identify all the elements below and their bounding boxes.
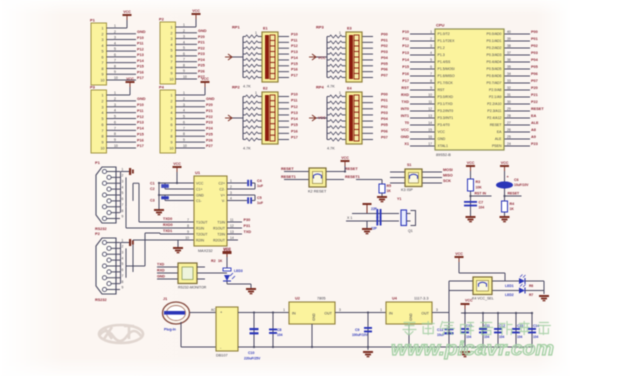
svg-text:12: 12	[230, 224, 234, 228]
svg-text:GND: GND	[157, 275, 165, 279]
svg-text:6: 6	[183, 120, 185, 124]
svg-text:2: 2	[430, 37, 432, 41]
svg-text:P02: P02	[531, 44, 538, 48]
svg-text:P0.1/AD1: P0.1/AD1	[487, 39, 502, 43]
svg-text:3: 3	[183, 35, 185, 39]
svg-text:100uF/10V: 100uF/10V	[352, 333, 369, 337]
svg-text:P2: P2	[95, 231, 101, 236]
svg-text:4: 4	[114, 41, 116, 45]
svg-text:C3: C3	[150, 199, 155, 203]
svg-text:1: 1	[183, 91, 185, 95]
svg-text:10: 10	[185, 236, 189, 240]
svg-text:3: 3	[436, 308, 438, 312]
svg-text:7: 7	[183, 58, 185, 62]
svg-text:2: 2	[102, 99, 104, 103]
svg-text:10uF/10V: 10uF/10V	[514, 183, 529, 187]
svg-text:P01: P01	[381, 38, 388, 42]
svg-text:GND: GND	[198, 29, 207, 33]
svg-text:P23: P23	[531, 142, 538, 146]
svg-text:3: 3	[114, 36, 116, 40]
svg-text:C6: C6	[514, 178, 519, 182]
svg-text:P1.6/MISO: P1.6/MISO	[438, 74, 455, 78]
svg-text:9: 9	[122, 286, 124, 290]
svg-text:GND: GND	[137, 97, 146, 101]
svg-text:12: 12	[428, 107, 432, 111]
svg-text:8: 8	[187, 224, 189, 228]
svg-text:C10: C10	[248, 351, 254, 355]
svg-text:VCC: VCC	[123, 10, 131, 14]
svg-text:P0.5/AD5: P0.5/AD5	[487, 67, 502, 71]
svg-text:P22: P22	[531, 100, 538, 104]
svg-text:P13: P13	[291, 111, 298, 115]
svg-text:4.7K: 4.7K	[243, 85, 251, 89]
svg-text:C2: C2	[150, 187, 155, 191]
svg-text:8: 8	[102, 67, 104, 71]
svg-text:P05: P05	[381, 123, 388, 127]
svg-text:RESET: RESET	[281, 167, 294, 171]
svg-text:2: 2	[230, 185, 232, 189]
svg-text:2: 2	[114, 97, 116, 101]
svg-text:P1.4/SS: P1.4/SS	[438, 60, 452, 64]
svg-text:P1: P1	[90, 18, 96, 23]
svg-text:16: 16	[428, 135, 432, 139]
svg-text:P2.2/A10: P2.2/A10	[487, 102, 501, 106]
svg-text:P24: P24	[198, 58, 206, 62]
svg-text:GND: GND	[196, 193, 204, 197]
svg-text:3: 3	[102, 105, 104, 109]
svg-text:C1: C1	[150, 182, 155, 186]
svg-text:P16: P16	[137, 70, 144, 74]
svg-text:8: 8	[122, 209, 124, 213]
svg-text:VCC: VCC	[501, 161, 509, 165]
svg-text:EA: EA	[531, 114, 537, 118]
svg-text:VCC: VCC	[126, 77, 134, 81]
svg-text:4.7K: 4.7K	[327, 85, 335, 89]
svg-text:31: 31	[507, 93, 511, 97]
svg-text:1: 1	[339, 31, 341, 35]
svg-text:RP4: RP4	[316, 85, 325, 90]
svg-text:1: 1	[102, 27, 104, 31]
svg-text:P21: P21	[198, 41, 205, 45]
svg-text:P0.2/AD2: P0.2/AD2	[487, 46, 502, 50]
svg-text:2: 2	[122, 174, 124, 178]
svg-text:34: 34	[507, 72, 511, 76]
svg-text:1: 1	[114, 91, 116, 95]
svg-text:104: 104	[479, 206, 485, 210]
svg-text:GND: GND	[137, 30, 146, 34]
svg-text:40: 40	[507, 30, 511, 34]
svg-text:P15: P15	[402, 65, 409, 69]
svg-text:8: 8	[171, 66, 173, 70]
svg-text:P15: P15	[137, 132, 144, 136]
svg-text:2: 2	[183, 29, 185, 33]
svg-text:6: 6	[102, 123, 104, 127]
svg-text:P06: P06	[381, 129, 388, 133]
svg-text:C1-: C1-	[196, 199, 202, 203]
svg-text:9: 9	[183, 69, 185, 73]
svg-text:T0: T0	[405, 121, 409, 125]
svg-text:P17: P17	[291, 74, 298, 78]
svg-text:9: 9	[430, 86, 432, 90]
svg-text:P16: P16	[291, 68, 298, 72]
svg-text:10: 10	[101, 79, 105, 83]
svg-text:P13: P13	[402, 51, 409, 55]
svg-text:14: 14	[230, 236, 234, 240]
svg-text:INT1: INT1	[401, 114, 409, 118]
svg-text:P12: P12	[402, 44, 409, 48]
svg-text:P01: P01	[381, 99, 388, 103]
svg-text:K3 ISP: K3 ISP	[401, 188, 413, 192]
svg-text:T1OUT: T1OUT	[196, 220, 208, 224]
svg-text:4: 4	[171, 43, 173, 47]
svg-text:9: 9	[102, 141, 104, 145]
svg-text:P20: P20	[206, 103, 213, 107]
svg-text:15: 15	[428, 128, 432, 132]
svg-text:10: 10	[170, 78, 174, 82]
svg-text:25: 25	[507, 135, 511, 139]
svg-text:P14: P14	[291, 117, 299, 121]
svg-text:P3: P3	[90, 85, 96, 90]
svg-text:VCC: VCC	[341, 156, 349, 160]
svg-text:P20: P20	[531, 86, 538, 90]
svg-text:VCC: VCC	[223, 247, 231, 251]
svg-text:1: 1	[183, 23, 185, 27]
svg-text:P00: P00	[531, 30, 538, 34]
svg-text:RS232: RS232	[95, 298, 107, 302]
svg-text:8: 8	[114, 64, 116, 68]
svg-text:LED1: LED1	[505, 284, 514, 288]
svg-text:10: 10	[428, 93, 432, 97]
svg-text:CPU: CPU	[436, 23, 445, 28]
svg-text:P3.4/T0: P3.4/T0	[438, 123, 450, 127]
svg-text:P0.3/AD3: P0.3/AD3	[487, 53, 502, 57]
svg-text:7: 7	[183, 126, 185, 130]
svg-text:5: 5	[122, 262, 124, 266]
svg-text:1: 1	[255, 91, 257, 95]
svg-text:P04: P04	[381, 56, 389, 60]
svg-text:P02: P02	[381, 44, 388, 48]
svg-text:36: 36	[507, 58, 511, 62]
svg-text:U2: U2	[295, 297, 300, 301]
svg-text:GND: GND	[206, 97, 215, 101]
svg-text:10: 10	[101, 147, 105, 151]
svg-text:INT0: INT0	[401, 107, 409, 111]
svg-text:1: 1	[230, 179, 232, 183]
svg-text:P04: P04	[381, 117, 389, 121]
svg-text:P00: P00	[381, 33, 388, 37]
svg-text:1K: 1K	[218, 259, 223, 263]
svg-text:35: 35	[507, 65, 511, 69]
svg-text:3: 3	[102, 38, 104, 42]
svg-text:P13: P13	[291, 50, 298, 54]
svg-text:3: 3	[171, 105, 173, 109]
svg-text:VCC: VCC	[192, 9, 200, 13]
svg-text:P2: P2	[159, 17, 165, 22]
svg-text:1: 1	[114, 24, 116, 28]
svg-text:Q1: Q1	[408, 229, 413, 233]
svg-text:3: 3	[230, 191, 232, 195]
svg-text:P14: P14	[137, 59, 145, 63]
svg-text:J1: J1	[163, 297, 167, 301]
svg-text:5: 5	[114, 115, 116, 119]
svg-text:10: 10	[183, 144, 187, 148]
svg-text:K2 RESET: K2 RESET	[308, 190, 327, 194]
svg-text:1: 1	[102, 94, 104, 98]
svg-text:3: 3	[183, 103, 185, 107]
svg-text:P2.4/A12: P2.4/A12	[487, 116, 501, 120]
svg-text:R2: R2	[211, 259, 216, 263]
svg-text:1117-3.3: 1117-3.3	[414, 297, 428, 301]
svg-text:P3.0/RXD: P3.0/RXD	[438, 95, 454, 99]
svg-text:RXD: RXD	[157, 269, 165, 273]
svg-text:P2.0/A8: P2.0/A8	[489, 88, 502, 92]
svg-text:39: 39	[507, 37, 511, 41]
svg-text:6: 6	[122, 268, 124, 272]
svg-text:9: 9	[114, 70, 116, 74]
svg-text:7: 7	[430, 72, 432, 76]
svg-text:RST: RST	[438, 88, 446, 92]
svg-text:SCK: SCK	[443, 179, 451, 183]
svg-text:E1: E1	[263, 27, 268, 31]
svg-text:9: 9	[187, 230, 189, 234]
svg-text:29: 29	[507, 107, 511, 111]
svg-text:P03: P03	[381, 111, 388, 115]
svg-text:P10: P10	[291, 93, 298, 97]
svg-text:6: 6	[183, 52, 185, 56]
svg-text:22P: 22P	[371, 227, 378, 231]
svg-text:GND: GND	[312, 313, 316, 321]
svg-text:C2-: C2-	[219, 187, 225, 191]
svg-text:E2: E2	[263, 87, 268, 91]
svg-text:P16: P16	[402, 72, 409, 76]
svg-text:24: 24	[507, 142, 511, 146]
svg-text:4: 4	[230, 197, 232, 201]
svg-text:1: 1	[255, 31, 257, 35]
svg-text:MOSI: MOSI	[443, 168, 453, 172]
svg-text:VCC: VCC	[318, 56, 326, 60]
svg-text:P12: P12	[137, 47, 144, 51]
svg-text:AC: AC	[211, 308, 216, 312]
svg-text:P24: P24	[206, 127, 214, 131]
svg-text:3: 3	[171, 37, 173, 41]
svg-text:7: 7	[114, 59, 116, 63]
svg-text:4: 4	[102, 111, 104, 115]
svg-text:26: 26	[507, 128, 511, 132]
svg-text:TXD: TXD	[157, 263, 165, 267]
svg-text:A8: A8	[531, 128, 536, 132]
svg-text:6: 6	[171, 123, 173, 127]
svg-text:P3.3/INT1: P3.3/INT1	[438, 116, 454, 120]
svg-text:P1.3: P1.3	[438, 53, 445, 57]
svg-text:MAX232: MAX232	[198, 249, 213, 253]
svg-text:C8: C8	[277, 328, 282, 332]
svg-text:P1.5/MOSI: P1.5/MOSI	[438, 67, 455, 71]
svg-text:P07: P07	[381, 136, 388, 140]
svg-text:P25: P25	[198, 64, 205, 68]
svg-text:3: 3	[339, 308, 341, 312]
svg-text:TXD: TXD	[401, 100, 409, 104]
svg-text:RS232-MONITOR: RS232-MONITOR	[178, 286, 207, 290]
svg-text:3: 3	[430, 44, 432, 48]
svg-text:P0.4/AD4: P0.4/AD4	[487, 60, 502, 64]
svg-text:R2IN: R2IN	[196, 238, 204, 242]
svg-text:P10: P10	[137, 103, 144, 107]
svg-text:5: 5	[102, 50, 104, 54]
svg-text:IN: IN	[292, 312, 296, 316]
svg-text:PSEN: PSEN	[492, 144, 502, 148]
svg-text:7: 7	[102, 129, 104, 133]
svg-text:13: 13	[230, 230, 234, 234]
svg-text:RP2: RP2	[232, 85, 241, 90]
svg-text:P14: P14	[291, 56, 299, 60]
svg-text:4: 4	[183, 109, 185, 113]
svg-text:RP3: RP3	[316, 25, 325, 30]
svg-text:R1OUT: R1OUT	[213, 226, 226, 230]
svg-text:R2OUT: R2OUT	[213, 238, 226, 242]
svg-text:13: 13	[428, 114, 432, 118]
svg-text:4: 4	[114, 109, 116, 113]
svg-text:C9: C9	[355, 328, 360, 332]
svg-text:P1.2: P1.2	[438, 46, 445, 50]
svg-text:P0.0/AD0: P0.0/AD0	[487, 32, 502, 36]
svg-text:P0.6/AD6: P0.6/AD6	[487, 74, 502, 78]
svg-text:K4 VCC_SEL: K4 VCC_SEL	[472, 297, 494, 301]
svg-text:P1.0/T2: P1.0/T2	[438, 32, 450, 36]
svg-text:P12: P12	[291, 105, 298, 109]
svg-text:6: 6	[102, 55, 104, 59]
svg-text:2: 2	[171, 99, 173, 103]
svg-text:6: 6	[114, 53, 116, 57]
svg-text:1: 1	[380, 308, 382, 312]
svg-text:VCC: VCC	[318, 116, 326, 120]
svg-text:1K: 1K	[510, 207, 515, 211]
svg-text:P03: P03	[381, 50, 388, 54]
svg-text:5: 5	[102, 117, 104, 121]
svg-text:4: 4	[183, 40, 185, 44]
svg-text:R5: R5	[387, 184, 392, 188]
svg-text:MISO: MISO	[443, 174, 453, 178]
svg-text:4: 4	[122, 256, 124, 260]
svg-text:6: 6	[114, 120, 116, 124]
svg-text:P13: P13	[137, 53, 144, 57]
svg-text:4: 4	[122, 185, 124, 189]
svg-text:P17: P17	[291, 136, 298, 140]
svg-text:P12: P12	[137, 115, 144, 119]
svg-text:7805: 7805	[317, 297, 325, 301]
svg-text:P13: P13	[137, 121, 144, 125]
svg-text:P15: P15	[291, 123, 298, 127]
svg-text:7: 7	[171, 129, 173, 133]
svg-text:8: 8	[122, 280, 124, 284]
svg-text:VCC: VCC	[438, 130, 446, 134]
svg-text:C7: C7	[479, 201, 484, 205]
svg-text:X1: X1	[404, 142, 409, 146]
svg-text:P31: P31	[244, 224, 251, 228]
svg-text:5: 5	[171, 117, 173, 121]
svg-text:5: 5	[183, 46, 185, 50]
svg-text:P26: P26	[206, 138, 213, 142]
svg-text:P15: P15	[291, 62, 298, 66]
svg-text:P07: P07	[531, 79, 538, 83]
svg-text:T2IN: T2IN	[217, 232, 225, 236]
svg-text:38: 38	[507, 44, 511, 48]
svg-text:8: 8	[183, 63, 185, 67]
svg-text:www.picavr.com: www.picavr.com	[391, 339, 554, 360]
svg-text:11: 11	[428, 100, 432, 104]
svg-text:P14: P14	[137, 127, 145, 131]
svg-text:TXD1: TXD1	[163, 229, 172, 233]
svg-text:3: 3	[122, 179, 124, 183]
svg-text:P25: P25	[206, 132, 213, 136]
svg-text:2: 2	[102, 32, 104, 36]
svg-text:C5: C5	[257, 196, 262, 200]
svg-text:10: 10	[114, 144, 118, 148]
svg-text:X 1: X 1	[347, 216, 352, 220]
svg-text:9: 9	[102, 73, 104, 77]
svg-text:P2.3/A11: P2.3/A11	[487, 109, 501, 113]
svg-text:P05: P05	[531, 65, 538, 69]
svg-text:2: 2	[122, 245, 124, 249]
svg-text:VCC: VCC	[196, 181, 204, 185]
svg-text:7: 7	[122, 274, 124, 278]
svg-text:RXD0: RXD0	[163, 223, 173, 227]
svg-text:P00: P00	[381, 93, 388, 97]
svg-text:P16: P16	[291, 129, 298, 133]
svg-text:5: 5	[430, 58, 432, 62]
svg-text:7: 7	[187, 218, 189, 222]
svg-text:TXD: TXD	[244, 230, 252, 234]
svg-text:11: 11	[230, 218, 234, 222]
svg-text:Y1: Y1	[397, 197, 401, 201]
svg-text:5: 5	[122, 191, 124, 195]
svg-text:R7: R7	[529, 293, 533, 297]
svg-text:VCC: VCC	[467, 161, 475, 165]
svg-text:104: 104	[277, 333, 283, 337]
svg-text:P21: P21	[531, 93, 538, 97]
svg-text:1: 1	[283, 308, 285, 312]
svg-text:17: 17	[428, 142, 432, 146]
svg-text:R1IN: R1IN	[196, 226, 204, 230]
svg-text:4: 4	[102, 44, 104, 48]
svg-text:89S52-B: 89S52-B	[436, 153, 451, 157]
svg-text:27: 27	[507, 121, 511, 125]
svg-text:8: 8	[430, 79, 432, 83]
svg-text:ALE: ALE	[495, 137, 502, 141]
svg-text:2: 2	[171, 31, 173, 35]
svg-text:RESET: RESET	[508, 192, 521, 196]
svg-text:5: 5	[183, 115, 185, 119]
svg-text:P12: P12	[291, 44, 298, 48]
svg-text:P27: P27	[206, 144, 213, 148]
svg-text:RP1: RP1	[232, 25, 241, 30]
svg-text:10: 10	[183, 75, 187, 79]
svg-text:33: 33	[507, 79, 511, 83]
svg-text:3: 3	[114, 103, 116, 107]
svg-text:P4: P4	[159, 85, 165, 90]
svg-text:1: 1	[171, 94, 173, 98]
svg-text:220uF/25V: 220uF/25V	[244, 357, 261, 361]
svg-text:R4: R4	[510, 202, 515, 206]
svg-text:9: 9	[183, 138, 185, 142]
svg-text:7: 7	[114, 126, 116, 130]
svg-text:LED2: LED2	[505, 293, 514, 297]
svg-text:P1.7/SCK: P1.7/SCK	[438, 81, 454, 85]
svg-text:A9: A9	[531, 135, 536, 139]
svg-text:P10: P10	[137, 36, 144, 40]
svg-text:R3: R3	[476, 180, 481, 184]
svg-text:P1.1/T2EX: P1.1/T2EX	[438, 39, 456, 43]
svg-text:2: 2	[114, 30, 116, 34]
